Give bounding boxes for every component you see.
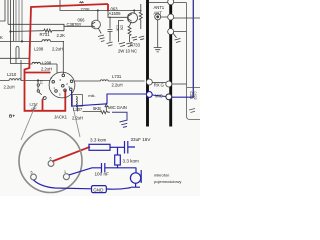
Q63 emitter wire	[119, 21, 124, 43]
svg-text:K: K	[0, 35, 3, 40]
callout pin 1	[63, 174, 69, 180]
ground G2	[126, 42, 132, 46]
Q66 collector	[97, 10, 99, 20]
svg-text:6: 6	[50, 157, 52, 161]
blue ground pot	[112, 112, 128, 127]
capacitor 33uF	[125, 141, 136, 154]
gnd wire from pin5	[34, 180, 92, 189]
svg-text:C3876Y: C3876Y	[67, 22, 82, 27]
svg-text:MIC: MIC	[155, 94, 163, 99]
component L212 stack	[38, 82, 45, 100]
svg-text:3.3 kom: 3.3 kom	[123, 159, 140, 164]
resistor under Q63	[128, 22, 131, 42]
callout leader line 1	[21, 104, 36, 140]
svg-text:GND: GND	[93, 187, 104, 192]
red stub jack left	[42, 100, 44, 111]
box component right	[187, 3, 201, 120]
blue mic circuit bottom	[34, 141, 142, 193]
wire to R731	[11, 30, 44, 33]
svg-text:2.2uH: 2.2uH	[41, 66, 52, 71]
wire bundle vertical 3	[11, 0, 30, 64]
svg-text:2.2K: 2.2K	[57, 33, 66, 38]
wire bundle vertical 7	[21, 0, 23, 41]
wire y58	[0, 57, 30, 59]
svg-text:L731: L731	[112, 74, 122, 79]
resistor 3.3k vertical	[115, 155, 121, 165]
wire pin3	[173, 32, 186, 38]
capacitor under base	[108, 17, 113, 42]
svg-text:3.3 kom: 3.3 kom	[90, 138, 107, 143]
red annotation path main	[25, 4, 109, 162]
ground ant	[154, 20, 162, 52]
svg-text:1.5K: 1.5K	[116, 25, 120, 32]
wire ant	[161, 17, 200, 18]
svg-text:MIC GAIN: MIC GAIN	[108, 105, 127, 110]
ground G5	[175, 39, 181, 43]
ground G2b	[132, 36, 145, 40]
tiny part above red	[80, 2, 84, 3]
pin P5	[166, 81, 172, 87]
resistor R731	[44, 24, 64, 32]
wire cap 100nF row	[92, 167, 136, 169]
wire bundle vertical 5	[15, 0, 17, 41]
jack JACK1 symbol	[49, 72, 75, 98]
svg-text:5: 5	[31, 171, 33, 175]
blue labels	[88, 93, 181, 192]
svg-text:2W 10 NC: 2W 10 NC	[118, 48, 137, 53]
wire pin1	[69, 168, 92, 175]
wire loop jumper	[16, 46, 19, 63]
transistor Q66	[92, 20, 101, 29]
red labels	[9, 6, 90, 118]
svg-text:2.2uH: 2.2uH	[112, 82, 123, 87]
svg-text:0.022: 0.022	[193, 92, 197, 100]
svg-text:ANT: ANT	[154, 10, 163, 15]
svg-text:ANT1: ANT1	[154, 5, 165, 10]
wire jack top mid	[62, 41, 64, 74]
wire y41	[0, 40, 42, 42]
wire bundle vertical 2	[7, 0, 9, 24]
svg-text:RX G: RX G	[154, 83, 165, 88]
svg-text:5KB: 5KB	[93, 106, 101, 111]
callout pin 6	[48, 161, 54, 167]
node dot C	[37, 79, 39, 81]
svg-text:L208: L208	[42, 60, 52, 65]
inductor L207 shield box	[72, 95, 82, 107]
wire jack top left	[56, 64, 58, 74]
svg-text:JACK1: JACK1	[54, 115, 68, 120]
pin P1	[168, 0, 174, 5]
wire collector rail	[60, 0, 142, 10]
svg-text:2.2: 2.2	[39, 80, 43, 84]
svg-text:1: 1	[64, 170, 66, 174]
svg-text:A1505: A1505	[109, 11, 122, 16]
svg-text:L210: L210	[7, 72, 17, 77]
inductor L208b	[29, 62, 57, 64]
Q63 base wire	[108, 10, 128, 17]
blue right vertical	[192, 0, 194, 98]
blue pin ring B	[166, 94, 172, 100]
blue mic wire	[72, 0, 194, 127]
callout big circle	[19, 130, 82, 193]
microphone symbol	[130, 173, 140, 183]
svg-text:mikrofon: mikrofon	[154, 172, 169, 177]
svg-text:R733: R733	[130, 42, 141, 47]
svg-text:mik.: mik.	[88, 93, 95, 98]
Q63 collector	[133, 10, 135, 13]
potentiometer 5KB	[100, 104, 110, 114]
node dot A	[9, 30, 11, 32]
transistor Q63	[128, 13, 138, 23]
red callout wire	[52, 147, 90, 162]
svg-text:R731: R731	[40, 32, 51, 37]
GND box	[92, 186, 107, 193]
inductor L208a	[42, 40, 64, 42]
wire bundle vertical 6	[18, 0, 20, 41]
wire rx right	[172, 83, 187, 85]
ground G1	[119, 42, 125, 46]
wire bundle vertical 1	[0, 0, 5, 21]
wire bundle vertical 4	[13, 0, 15, 41]
callout pin numbers	[31, 157, 67, 175]
svg-text:33uF 16V: 33uF 16V	[131, 137, 152, 142]
wire pot row	[78, 106, 101, 111]
thick bus line A	[146, 0, 149, 127]
resistor 3.3k horizontal	[89, 144, 110, 150]
capacitor 100nF	[102, 163, 105, 173]
ground box	[189, 109, 195, 113]
Q66 emitter+ground	[98, 28, 105, 41]
svg-text:C353: C353	[189, 92, 193, 100]
wire top pins	[149, 2, 186, 4]
svg-text:pojemnościowy: pojemnościowy	[154, 179, 181, 184]
svg-text:270K: 270K	[81, 6, 91, 11]
svg-text:L207: L207	[73, 107, 83, 112]
node dot B	[21, 40, 23, 42]
wire vert x21	[20, 60, 22, 81]
wire rx	[152, 82, 166, 84]
inductor L210	[0, 79, 50, 81]
callout pin 5	[31, 174, 37, 180]
svg-text:150: 150	[120, 25, 124, 30]
resistor R733 vertical	[139, 4, 142, 29]
svg-text:2.2uH: 2.2uH	[4, 85, 15, 90]
jack pin numbers	[50, 76, 70, 97]
node dots rail	[107, 9, 109, 11]
pin P4	[146, 79, 152, 85]
thick bus line B	[169, 0, 172, 127]
junction down	[117, 147, 119, 155]
svg-text:L208: L208	[34, 46, 44, 51]
svg-text:2.2uH: 2.2uH	[52, 46, 63, 51]
svg-text:B+: B+	[9, 114, 15, 119]
svg-text:2.2uH: 2.2uH	[72, 116, 83, 121]
pin P3	[168, 29, 174, 35]
wire base Q66	[8, 24, 92, 26]
callout leader line 2	[73, 107, 80, 137]
blue pin ring A	[146, 92, 152, 98]
inductor L731	[75, 80, 145, 81]
svg-text:100 nF: 100 nF	[95, 172, 109, 177]
pin P2	[168, 14, 174, 20]
antenna connector ANT	[155, 14, 161, 20]
ground G0	[107, 42, 113, 46]
